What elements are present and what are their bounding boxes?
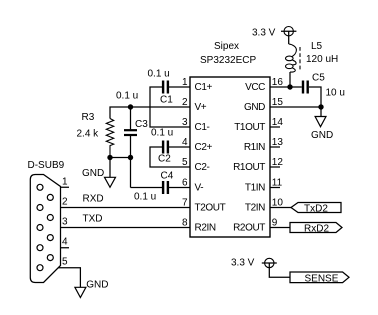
svg-text:6: 6: [182, 178, 188, 189]
svg-text:120 uH: 120 uH: [306, 54, 338, 65]
svg-text:C5: C5: [312, 73, 325, 84]
svg-text:8: 8: [182, 218, 188, 229]
svg-text:GND: GND: [82, 168, 104, 179]
svg-text:T2OUT: T2OUT: [195, 203, 226, 214]
svg-text:SP3232ECP: SP3232ECP: [200, 55, 256, 66]
svg-text:RxD2: RxD2: [304, 223, 329, 234]
svg-text:4: 4: [182, 137, 188, 148]
svg-text:C2-: C2-: [195, 162, 210, 173]
svg-text:2: 2: [182, 97, 188, 108]
svg-text:Sipex: Sipex: [214, 41, 239, 52]
svg-text:R1OUT: R1OUT: [233, 162, 265, 173]
svg-text:7: 7: [182, 198, 188, 209]
svg-text:R3: R3: [82, 112, 95, 123]
svg-text:R2OUT: R2OUT: [233, 223, 265, 234]
svg-text:3: 3: [62, 217, 68, 228]
svg-text:15: 15: [272, 97, 284, 108]
svg-text:3.3 V: 3.3 V: [231, 258, 255, 269]
svg-text:C1+: C1+: [195, 82, 213, 93]
svg-text:0.1 u: 0.1 u: [151, 128, 173, 139]
svg-text:SENSE: SENSE: [305, 273, 339, 284]
svg-text:GND: GND: [86, 279, 108, 290]
svg-text:0.1 u: 0.1 u: [116, 91, 138, 102]
svg-text:10: 10: [272, 198, 284, 209]
svg-text:13: 13: [272, 137, 284, 148]
svg-text:RXD: RXD: [83, 193, 104, 204]
svg-text:C3: C3: [135, 119, 148, 130]
svg-text:0.1 u: 0.1 u: [134, 192, 156, 203]
svg-text:C1: C1: [160, 95, 173, 106]
svg-text:C2: C2: [158, 154, 171, 165]
svg-text:VCC: VCC: [245, 82, 265, 93]
svg-text:C1-: C1-: [195, 122, 210, 133]
svg-text:R1IN: R1IN: [244, 142, 265, 153]
svg-text:R2IN: R2IN: [195, 223, 216, 234]
svg-text:0.1 u: 0.1 u: [148, 69, 170, 80]
svg-text:T2IN: T2IN: [245, 203, 265, 214]
svg-text:11: 11: [272, 178, 283, 189]
svg-text:D-SUB9: D-SUB9: [28, 160, 65, 171]
svg-text:L5: L5: [311, 41, 323, 52]
svg-text:1: 1: [182, 77, 188, 88]
svg-text:4: 4: [62, 237, 68, 248]
svg-text:14: 14: [272, 117, 284, 128]
svg-text:12: 12: [272, 157, 284, 168]
svg-text:3.3 V: 3.3 V: [252, 28, 276, 39]
svg-text:10 u: 10 u: [326, 87, 345, 98]
svg-text:T1IN: T1IN: [245, 183, 265, 194]
svg-text:V-: V-: [195, 183, 204, 194]
svg-text:GND: GND: [244, 102, 265, 113]
svg-text:TxD2: TxD2: [304, 203, 328, 214]
svg-text:3: 3: [182, 117, 188, 128]
svg-text:2: 2: [62, 197, 68, 208]
svg-text:16: 16: [272, 77, 284, 88]
svg-text:5: 5: [62, 257, 68, 268]
svg-text:1: 1: [62, 176, 68, 187]
svg-text:T1OUT: T1OUT: [234, 122, 265, 133]
svg-text:2.4 k: 2.4 k: [77, 129, 100, 140]
svg-text:V+: V+: [195, 102, 207, 113]
svg-text:C4: C4: [161, 171, 174, 182]
svg-text:9: 9: [272, 218, 278, 229]
svg-text:TXD: TXD: [83, 213, 103, 224]
svg-text:GND: GND: [311, 130, 333, 141]
svg-text:5: 5: [182, 157, 188, 168]
svg-text:C2+: C2+: [195, 142, 213, 153]
